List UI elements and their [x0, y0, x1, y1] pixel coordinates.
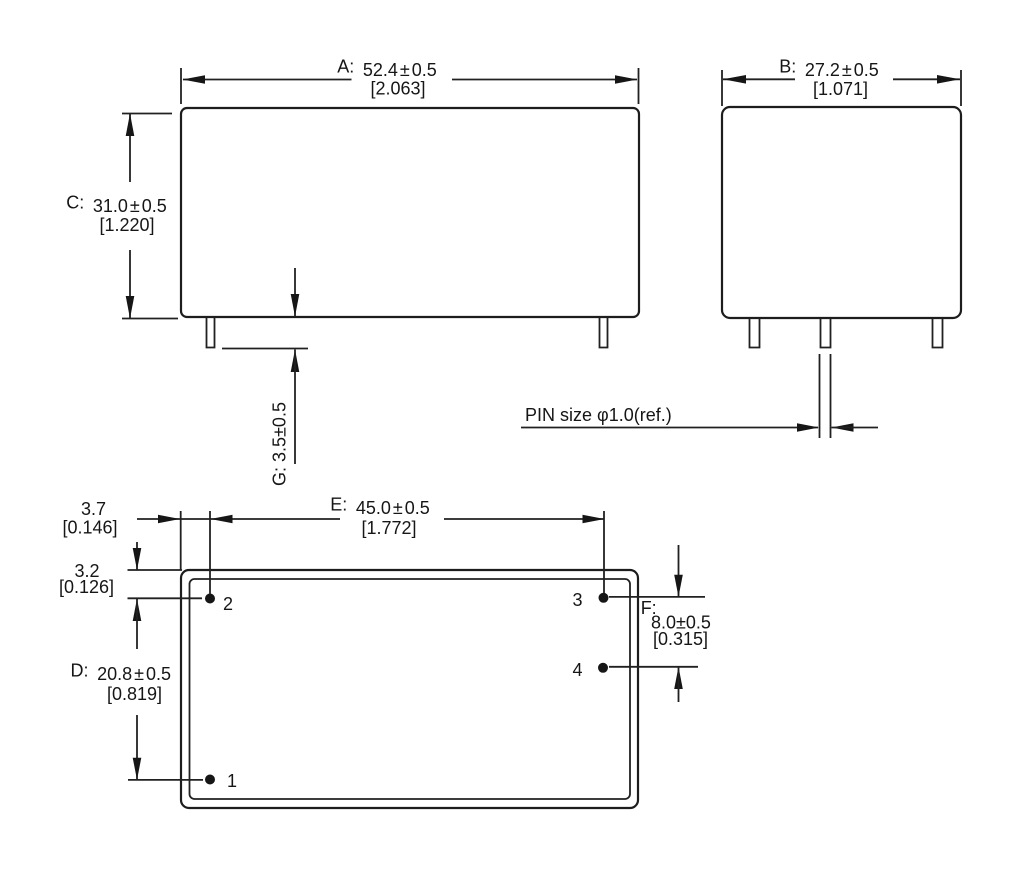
dimension A arrow left — [183, 75, 206, 84]
svg-text:1: 1 — [227, 771, 237, 791]
bottom view inner body — [190, 579, 631, 799]
dimension D upper line — [136, 599, 138, 649]
dimension A arrow right — [615, 75, 638, 84]
pin 3 dot — [599, 593, 609, 603]
svg-text:[2.063]: [2.063] — [370, 79, 425, 99]
pin size extension line right — [830, 354, 832, 438]
pin 2 dot — [205, 594, 215, 604]
dimension C arrow up — [126, 114, 135, 137]
dimension D lower line — [136, 715, 138, 780]
dimension B extension line right — [960, 70, 962, 106]
svg-text:4: 4 — [572, 660, 582, 680]
dimension C arrow down — [126, 296, 135, 319]
svg-text:D: 20.8±0.5: D: 20.8±0.5 — [71, 661, 172, 685]
dimension E arrow right — [583, 515, 605, 524]
dimension B arrow left — [723, 75, 746, 84]
dimension A extension line left — [180, 68, 182, 104]
dimension G arrow down — [291, 294, 300, 317]
dimension D pin1 tick — [128, 779, 203, 781]
front view right pin — [600, 317, 608, 348]
dimension B arrow right — [937, 75, 960, 84]
dimension F lower arrow — [674, 667, 683, 689]
side view middle pin — [821, 318, 831, 348]
dimension F upper arrow line — [678, 545, 680, 597]
dimension F lower arrow line — [678, 667, 680, 702]
svg-text:PIN size φ1.0(ref.): PIN size φ1.0(ref.) — [525, 405, 672, 425]
dimension F pin3 tick — [609, 596, 705, 598]
pin size arrow right-pointing — [797, 423, 819, 432]
svg-text:[1.220]: [1.220] — [99, 215, 154, 235]
svg-text:[0.146]: [0.146] — [62, 518, 117, 538]
dimension B extension line left — [721, 70, 723, 106]
svg-text:2: 2 — [223, 594, 233, 614]
dimension G tick at pin bottom — [222, 348, 308, 350]
svg-text:3.7: 3.7 — [81, 499, 106, 519]
extension line pin 2 — [209, 511, 211, 594]
dimension 3.7 arrow right-pointing — [158, 515, 180, 524]
dimension C bottom tick — [122, 318, 178, 320]
pin size leader line right — [832, 427, 879, 429]
dimension 3.2 upper arrow line — [136, 542, 138, 570]
dimension D upper arrow — [133, 599, 142, 621]
svg-text:[0.315]: [0.315] — [653, 629, 708, 649]
dimension E line right segment — [444, 518, 604, 520]
svg-text:A: 52.4±0.5: A: 52.4±0.5 — [337, 57, 437, 81]
pin size arrow left-pointing — [832, 423, 854, 432]
dimension E arrow left — [211, 515, 233, 524]
extension line pin 3 — [603, 511, 605, 593]
bottom view outer body — [181, 570, 638, 808]
dimension 3.2 lower tick — [128, 597, 203, 599]
svg-text:[1.071]: [1.071] — [813, 79, 868, 99]
side view body — [722, 107, 961, 318]
svg-text:E: 45.0±0.5: E: 45.0±0.5 — [330, 495, 430, 519]
svg-text:B: 27.2±0.5: B: 27.2±0.5 — [779, 57, 879, 81]
dimension E line left segment — [180, 518, 340, 520]
dimension G upper line — [294, 268, 296, 316]
pin 1 dot — [205, 775, 215, 785]
pin 4 dot — [598, 663, 608, 673]
dimension G lower line — [294, 350, 296, 465]
dimension C top tick — [122, 113, 172, 115]
dimension D lower arrow — [133, 758, 142, 780]
svg-text:3: 3 — [572, 590, 582, 610]
svg-text:[0.819]: [0.819] — [107, 684, 162, 704]
front view left pin — [207, 317, 215, 348]
dimension C line lower segment — [129, 250, 131, 318]
dimension A line right segment — [452, 79, 637, 81]
dimension B line left segment — [723, 78, 795, 80]
side view left pin — [750, 318, 760, 348]
dimension G arrow up — [291, 350, 300, 373]
side view right pin — [933, 318, 943, 348]
extension line box left edge — [180, 511, 182, 570]
svg-text:[0.126]: [0.126] — [59, 577, 114, 597]
front view body — [181, 108, 639, 317]
dimension 3.7 leader line — [137, 518, 180, 520]
dimension F pin4 tick — [609, 666, 698, 668]
dimension 3.2 upper tick — [128, 569, 183, 571]
svg-text:G: 3.5±0.5: G: 3.5±0.5 — [269, 402, 289, 486]
pin size extension line left — [819, 354, 821, 438]
svg-text:[1.772]: [1.772] — [361, 518, 416, 538]
dimension F upper arrow — [674, 575, 683, 597]
pin size leader line left — [521, 427, 818, 429]
dimension 3.2 upper arrow — [133, 548, 142, 570]
dimension A line left segment — [183, 79, 352, 81]
dimension A extension line right — [638, 68, 640, 104]
dimension B line right segment — [893, 78, 960, 80]
dimension C line upper segment — [129, 114, 131, 182]
svg-text:C: 31.0±0.5: C: 31.0±0.5 — [66, 193, 167, 217]
